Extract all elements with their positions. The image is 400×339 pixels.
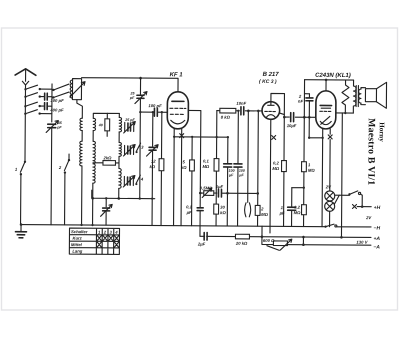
wire line 199 (92, 190, 155, 198)
resistor tone zigzag (342, 80, 349, 113)
wire screen line y110.5 (217, 110, 262, 112)
capacitor 10nF (236, 101, 246, 115)
svg-text:0,2: 0,2 (273, 161, 280, 166)
wire top rail to KF1 grid cap (81, 78, 178, 92)
node 130V junction (302, 236, 305, 239)
wire B217 top cap loop (271, 93, 285, 117)
svg-text:1µF: 1µF (216, 184, 224, 189)
node cathode line (173, 136, 175, 138)
wire +A line (200, 236, 371, 237)
tube KF1 anode (172, 100, 184, 102)
tube B217 top grid bar (268, 102, 274, 105)
wire KF1 anode out (188, 110, 201, 225)
node screen junction x248 (247, 110, 250, 113)
svg-text:µF: µF (186, 210, 192, 215)
svg-text:C243N (KL1): C243N (KL1) (315, 73, 351, 79)
band switch contact 1 (15, 161, 27, 225)
svg-text:0,5MΩ: 0,5MΩ (200, 185, 213, 190)
svg-text:Mittel: Mittel (71, 242, 83, 247)
tube KF1 cathode arc (171, 120, 185, 124)
node grid node x304 (303, 116, 306, 119)
node grid x140 (139, 111, 141, 113)
node column3 line199 (117, 197, 120, 200)
svg-text:µF: µF (279, 211, 285, 216)
trimmer capacitor 35pF (46, 120, 63, 132)
node volume junction (226, 192, 229, 195)
svg-text:kΩ: kΩ (181, 165, 187, 170)
ground symbol (15, 223, 26, 238)
svg-text:100: 100 (229, 169, 235, 173)
coil L3b (93, 141, 96, 183)
node top rail junction (139, 77, 142, 80)
trimmer capacitor 25pF top (128, 78, 147, 199)
wire column3 to line 199 (118, 188, 120, 198)
wire antenna bus (24, 85, 27, 162)
resistor 0,2MOhm grid leak (294, 117, 310, 215)
tube C243N grid dashes (320, 110, 331, 112)
svg-text:600 Ω: 600 Ω (263, 238, 275, 243)
wire L1 bottom to coil column 1 (77, 100, 83, 119)
svg-text:kΩ: kΩ (149, 164, 155, 169)
coil L4c (119, 168, 121, 188)
resistor 0,2MOhm anode load (272, 116, 287, 227)
resistor 2MOhm (255, 110, 269, 227)
wire x304 column (292, 80, 305, 227)
trimmer capacitor padding (101, 197, 113, 225)
transformer primary (353, 80, 356, 113)
switch contact row 4 (24, 110, 52, 116)
wire L4a-L4b (118, 132, 120, 142)
switch heater (348, 191, 362, 207)
wire L2a to L2b (81, 131, 83, 142)
tube KF1 grid dashes (170, 108, 186, 114)
wire link +A -A (302, 237, 304, 245)
tube B217 cathode pin and x (270, 119, 276, 226)
node zigzag anode (344, 112, 346, 114)
svg-text:12: 12 (151, 159, 156, 164)
svg-text:2kΩ: 2kΩ (102, 155, 112, 160)
node link bottom (302, 243, 305, 246)
capacitor 10uF (287, 113, 297, 129)
wire -A line (262, 226, 371, 245)
ground bus (21, 225, 325, 227)
trimmer capacitor Td (146, 111, 158, 226)
node -A left (261, 235, 264, 238)
svg-text:( KC 3 ): ( KC 3 ) (259, 79, 277, 85)
coil L1 variable antenna coil (70, 79, 85, 100)
svg-text:Horny: Horny (378, 122, 386, 142)
switch contact row 2 (24, 93, 41, 99)
wire x216 down (215, 111, 218, 226)
svg-text:20 kΩ: 20 kΩ (235, 241, 248, 246)
wire column 2 to bus (92, 183, 94, 225)
svg-text:nF: nF (298, 99, 304, 104)
capacitor 400pF (40, 103, 64, 113)
svg-text:Schalter: Schalter (71, 229, 88, 234)
terminal +H (352, 204, 380, 211)
capacitor 2nF (298, 94, 313, 118)
svg-text:Maestro B VI/1: Maestro B VI/1 (365, 118, 376, 185)
svg-text:100 pF: 100 pF (148, 103, 162, 108)
resistor 12kOhm (149, 111, 164, 226)
svg-text:10nF: 10nF (236, 101, 246, 106)
wire coil column 2 top (93, 113, 119, 118)
speaker (365, 82, 386, 108)
tube B217 dashes (265, 110, 275, 112)
switch contact row 3 (24, 102, 41, 108)
node anode x200 (199, 192, 202, 195)
node x309 (308, 116, 311, 119)
transformer core (356, 86, 358, 107)
capacitor 100pF (40, 93, 64, 103)
resistor 0,1MOhm (202, 159, 218, 172)
wire switch output bus (51, 84, 53, 122)
switch arm to L1 tap a (52, 84, 69, 91)
capacitor 100uF b (234, 110, 246, 227)
wire trimmer to ground bus (50, 128, 53, 225)
node column2 line199 (91, 197, 94, 200)
band switch contact 2 (58, 154, 71, 225)
tube C243N top cap (325, 80, 327, 91)
switch arm 4 (135, 175, 144, 185)
capacitor 1uF (279, 188, 296, 227)
resistor 8kOhm (220, 108, 236, 119)
svg-text:MΩ: MΩ (202, 164, 210, 169)
svg-text:Lang: Lang (72, 249, 82, 254)
tube B217 cathode arc (267, 115, 275, 117)
svg-text:10µF: 10µF (287, 123, 297, 128)
svg-text:+A: +A (373, 236, 380, 242)
svg-text:µF: µF (238, 173, 244, 177)
switch mains in bus (324, 224, 371, 228)
capacitor 0,1uF (186, 204, 204, 215)
antenna lead-in wire (25, 70, 27, 81)
node top cap rail (325, 79, 328, 82)
coil L4a (119, 113, 121, 132)
svg-text:MΩ: MΩ (261, 212, 269, 217)
node speaker return (340, 236, 343, 239)
svg-text:130 V: 130 V (356, 240, 368, 245)
svg-text:2µF: 2µF (197, 241, 206, 246)
resistor R 40 (98, 113, 110, 136)
svg-text:KF 1: KF 1 (170, 72, 184, 78)
svg-text:8 kΩ: 8 kΩ (221, 115, 231, 120)
wire speaker return (340, 113, 343, 237)
tube KF1 envelope (167, 72, 188, 129)
switch arm 3 (135, 143, 144, 153)
resistor 2kOhm (93, 155, 119, 165)
svg-text:Kurz: Kurz (72, 236, 82, 241)
trimmer capacitor Tc (123, 175, 135, 187)
tube C243N diagonal electrode (321, 116, 330, 124)
capacitor 100pF grid (148, 103, 162, 116)
svg-text:0,1: 0,1 (203, 159, 210, 164)
jack coil (245, 111, 252, 217)
node bus junction col1 (80, 224, 82, 226)
transformer secondary (359, 89, 361, 103)
rheostat 600 Ohm (263, 238, 292, 251)
tube KF1 filament pin (180, 129, 183, 226)
tube C243N anode bars (320, 104, 331, 106)
lamp 2 (325, 201, 335, 226)
wire lamp2 diagonal (334, 195, 339, 204)
switch table (69, 228, 119, 254)
svg-text:−A: −A (373, 245, 380, 251)
tube C243N pin and filament x (307, 129, 324, 227)
resistor 5kOhm (181, 136, 195, 226)
wire coil column1 to bus (81, 166, 83, 225)
switch contact row 1 (24, 85, 52, 91)
wire B217 anode to coupling (280, 113, 285, 115)
svg-text:−H: −H (374, 226, 381, 232)
antenna arrowhead (22, 81, 28, 85)
node bus junction col2 (91, 224, 93, 226)
wire x200 through bus to +A line (199, 226, 201, 236)
wire L4b-L4c (118, 156, 120, 168)
svg-text:100: 100 (239, 169, 245, 173)
switch arm to L1 tap b (52, 92, 69, 99)
wire stub below bus (269, 226, 271, 233)
svg-text:MΩ: MΩ (272, 166, 280, 171)
coil L2a (80, 118, 82, 130)
tube KF1 filament mark (180, 134, 184, 138)
lamp 1 (325, 184, 335, 201)
resistor 30kOhm (214, 204, 227, 215)
svg-text:pF: pF (129, 96, 135, 100)
antenna (15, 69, 36, 76)
svg-text:+H: +H (374, 205, 381, 211)
tube B217 envelope (259, 72, 280, 119)
svg-text:kΩ: kΩ (220, 210, 226, 215)
tube C243N envelope (315, 73, 351, 129)
tube C243N filament pin (328, 129, 332, 191)
resistor 1MOhm (302, 162, 316, 173)
svg-text:30: 30 (220, 205, 225, 210)
wire HT rail y79 (305, 79, 354, 81)
svg-text:40: 40 (98, 123, 103, 127)
node cathode-column junction (215, 136, 217, 138)
coil L3a (93, 118, 95, 130)
tube KF1 cathode pin (173, 129, 175, 137)
wire lamp to heater switch (335, 194, 350, 196)
wire cathode line y137 (174, 136, 228, 138)
wire anode line to transformer (336, 112, 353, 114)
coil L4b (119, 142, 121, 156)
svg-text:0,1: 0,1 (186, 204, 193, 209)
wire KF1 cathode to bus (173, 137, 176, 226)
svg-text:pF: pF (56, 125, 62, 129)
svg-text:B 217: B 217 (263, 72, 280, 78)
svg-text:MΩ: MΩ (308, 168, 316, 173)
node line199 x140 (139, 197, 141, 199)
wire coupling line y116.5 (284, 116, 315, 118)
wire secondary to speaker (361, 88, 366, 105)
svg-text:µF: µF (228, 173, 234, 177)
capacitor 1uF coupling (216, 184, 258, 197)
coil L2b (80, 141, 82, 166)
wire grid line to KF1 (140, 111, 167, 113)
trimmer capacitor Tb (124, 144, 136, 156)
capacitor 2uF (197, 232, 207, 246)
wire L3a to L3b (92, 131, 94, 142)
svg-text:25 pF: 25 pF (124, 118, 135, 122)
resistor 20kOhm (235, 234, 250, 246)
trimmer capacitor Ta (124, 118, 136, 133)
capacitor 100uF a (223, 136, 235, 226)
potentiometer 0,5MOhm (200, 185, 217, 197)
tube C243N cathode arc (320, 121, 331, 124)
